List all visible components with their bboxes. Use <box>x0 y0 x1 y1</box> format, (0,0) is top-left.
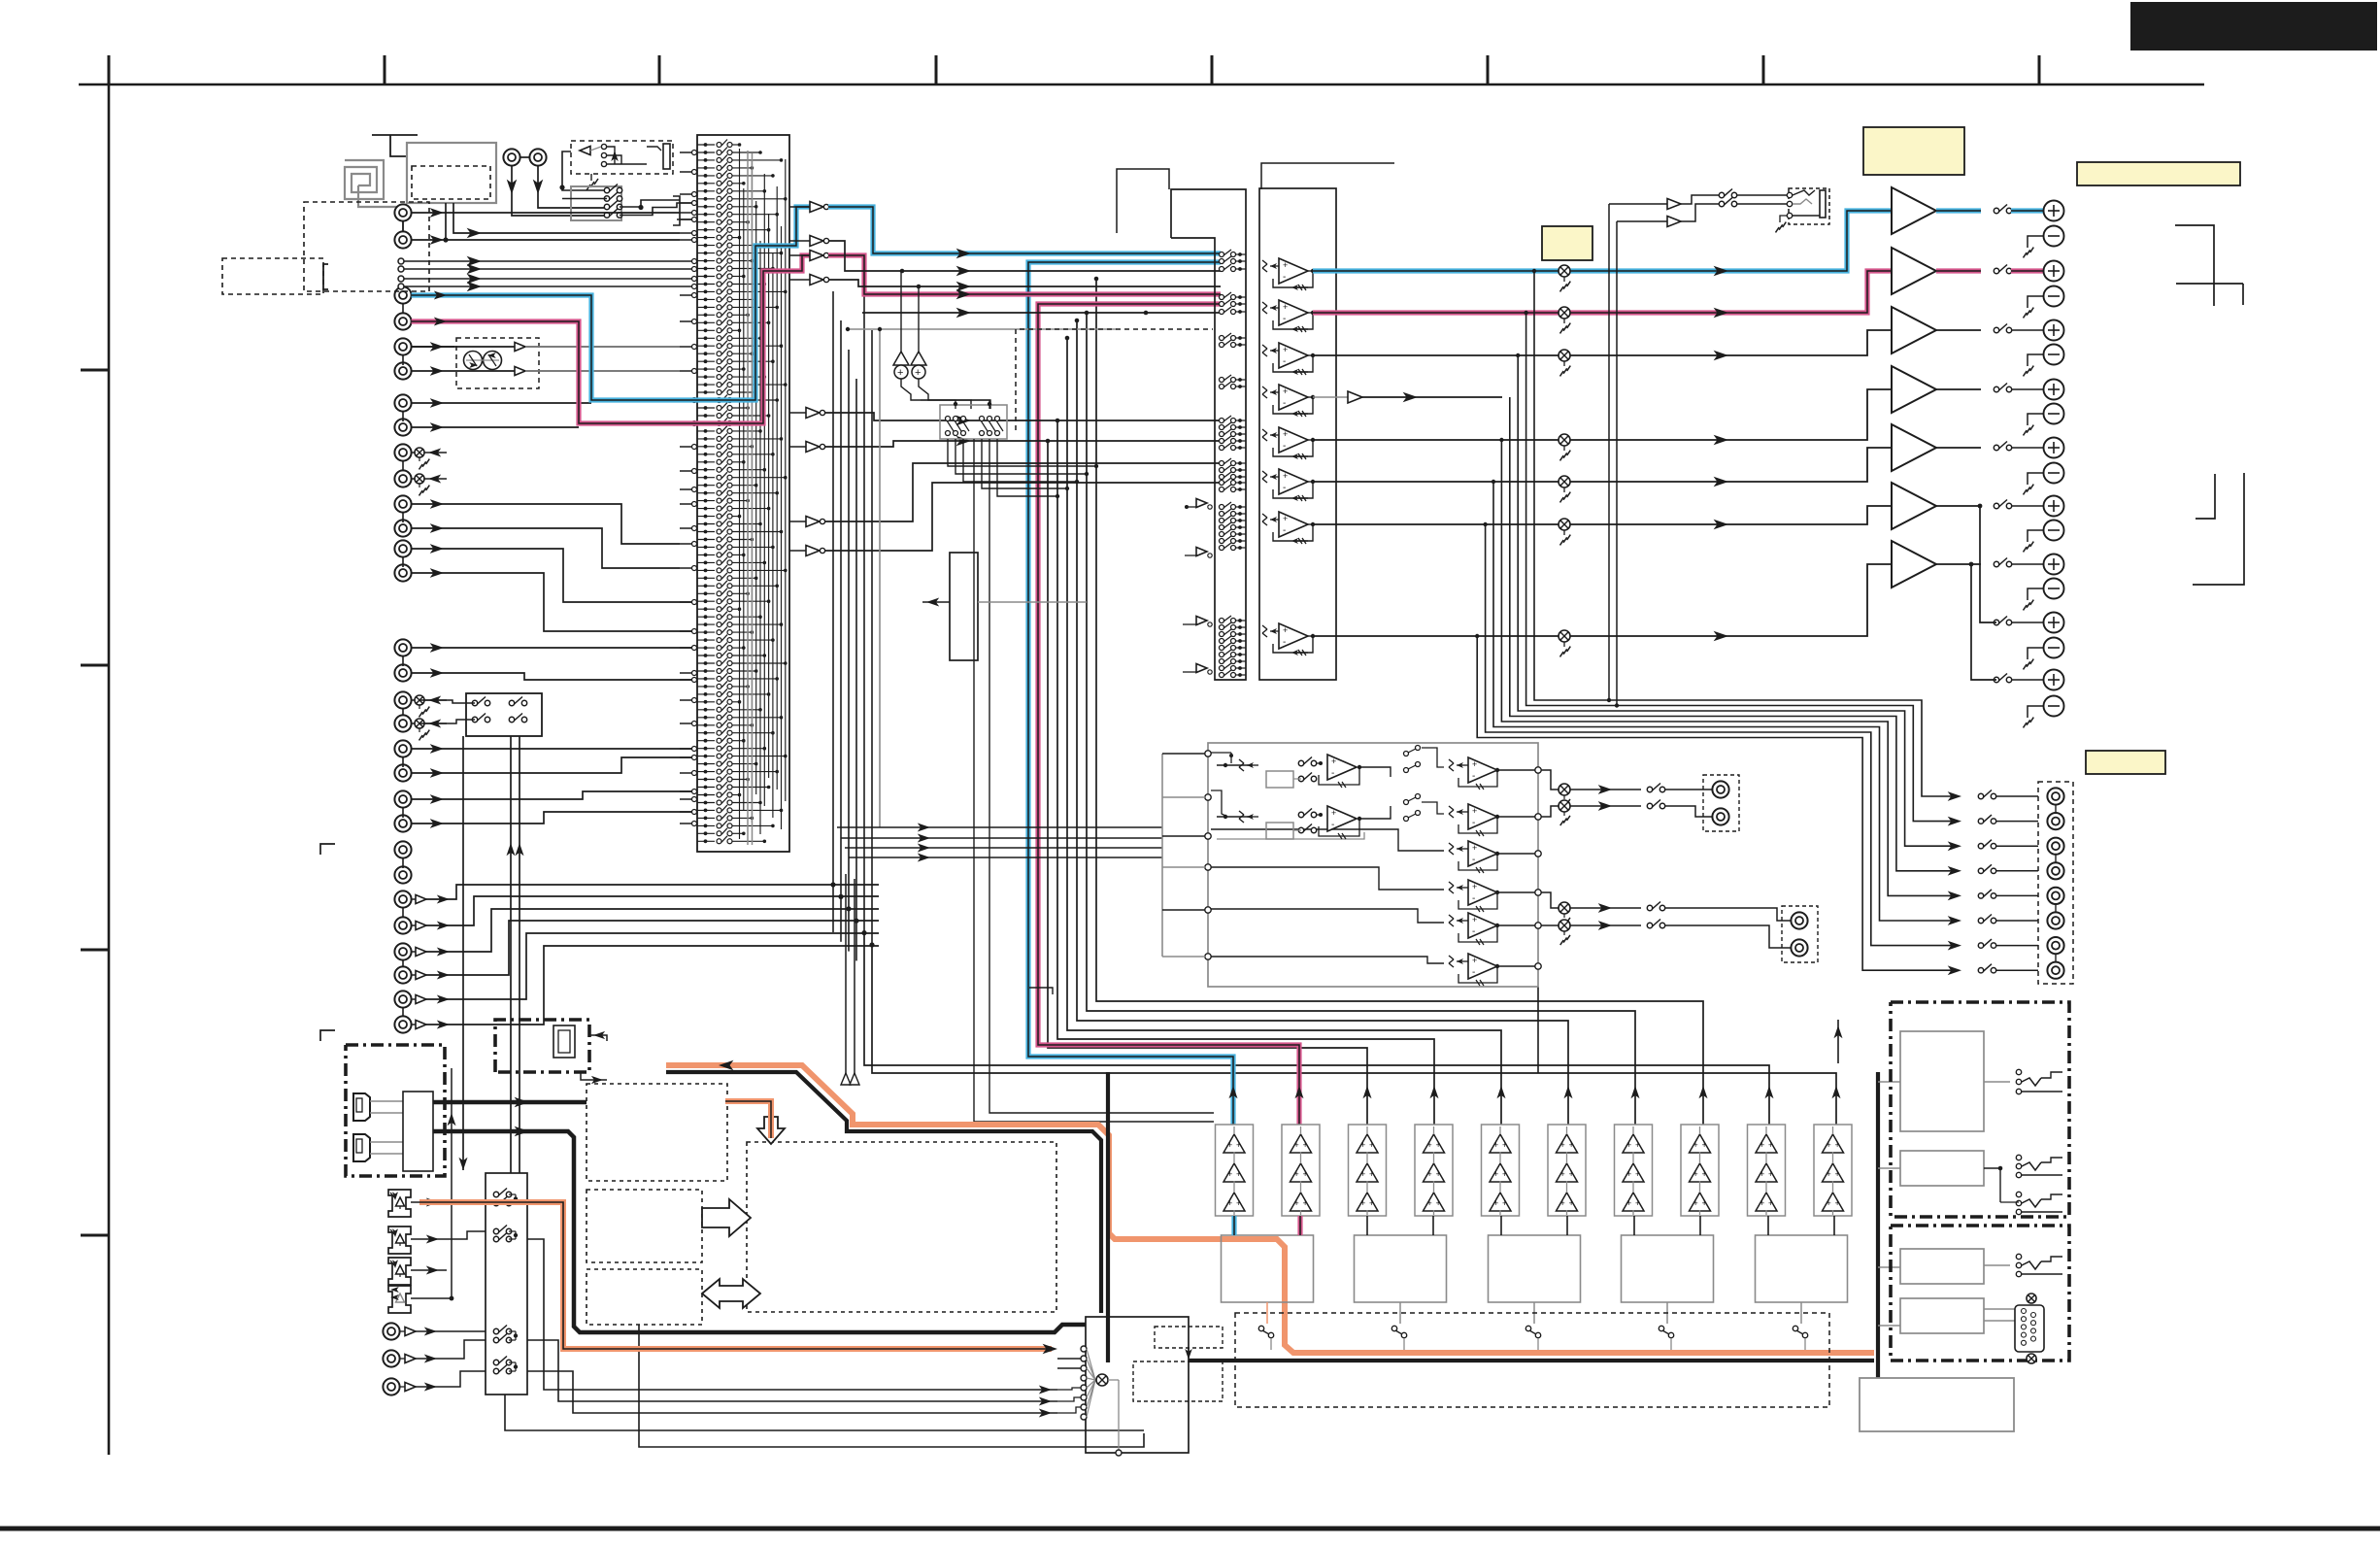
selector2 inv buffer a <box>1196 499 1207 508</box>
pre-out relay ch3 <box>1978 844 1983 849</box>
wire rec vertical 2 <box>519 736 520 1173</box>
svg-text:+: + <box>1472 915 1477 924</box>
mixer fan wire 8 <box>1087 1380 1095 1417</box>
svg-text:+: + <box>1283 386 1288 396</box>
bass internal wire 9 <box>1217 832 1364 839</box>
bus wire row 567 <box>824 483 1221 551</box>
power amp A2 <box>1892 248 1936 294</box>
speaker jumper frame 2 <box>2196 474 2215 519</box>
svg-text:-: - <box>1283 483 1286 493</box>
transformer box 2 <box>1900 1151 1984 1186</box>
big arrow right <box>702 1199 751 1236</box>
speaker terminal plus 4 <box>2044 380 2064 400</box>
page border top rule <box>79 84 2204 86</box>
power amp A1 <box>1892 187 1936 234</box>
bus wire row 322 <box>862 312 1221 314</box>
svg-text:+: + <box>1427 1140 1432 1150</box>
selector2 switch 18 <box>1220 475 1224 480</box>
svg-text:+: + <box>1760 1198 1764 1208</box>
mute relay row 322 <box>1559 307 1570 319</box>
bus wire row 339 gray <box>848 328 1117 330</box>
jack pair link <box>402 304 404 314</box>
selector2 switch 14 <box>1220 439 1224 444</box>
wire jack row 796 <box>412 757 696 773</box>
input jack J13 <box>394 639 411 655</box>
note box C <box>1542 226 1592 260</box>
tone box top wires <box>921 400 955 409</box>
speaker terminal minus 4 <box>2044 404 2064 424</box>
wire video row 1029 <box>426 933 879 999</box>
svg-text:+: + <box>1427 1169 1432 1179</box>
bass sum op-amp U6a <box>1449 759 1454 763</box>
svg-text:+: + <box>1303 1140 1308 1150</box>
svg-text:+: + <box>1303 1198 1308 1208</box>
svg-text:+: + <box>1835 1198 1840 1208</box>
phones drive amp R <box>1667 217 1681 227</box>
pre-out jack ch1 <box>2047 788 2063 804</box>
input jack J18 <box>394 815 411 831</box>
DAC5 riser arrow <box>1837 1020 1839 1063</box>
mixer fan wire 7 <box>1087 1380 1095 1407</box>
bass filter op-amp U5b <box>1224 815 1227 819</box>
bass output node 2 <box>1535 814 1541 820</box>
top tick 1 <box>108 55 111 84</box>
DAC mute switch 1 <box>1258 1326 1263 1330</box>
svg-text:+: + <box>1369 1198 1374 1208</box>
input jack J9 <box>394 495 411 512</box>
bass input node 5 <box>1205 907 1211 913</box>
selector2 switch 16 <box>1220 461 1224 466</box>
tone switch drop 3 <box>963 439 1077 482</box>
AM antenna jack <box>529 149 546 165</box>
wire relay out 8 <box>2011 622 2044 623</box>
DAC buffer group box 7 <box>1615 1125 1653 1216</box>
tone switch drop 1 <box>948 439 1096 466</box>
selector2 switch 7 <box>1220 336 1224 341</box>
bass input node 2 <box>1205 794 1211 800</box>
matrix buffer U1d <box>789 279 810 281</box>
selector2 switch 2 <box>1220 259 1224 264</box>
wire encoder left arrow <box>922 601 950 603</box>
svg-text:+: + <box>1369 1169 1374 1179</box>
tone switch drop 4 <box>982 439 1067 488</box>
bass sum op-amp U6b <box>1449 806 1454 810</box>
multi channel input pin 2 <box>398 266 404 272</box>
DAC out stub 2 <box>1399 1302 1401 1324</box>
sub jack dashed box 1 <box>1703 775 1739 831</box>
video bus drop 1 <box>832 885 834 932</box>
svg-text:+: + <box>897 367 903 379</box>
speaker relay switch 3 <box>604 204 609 209</box>
DAC buffer group box 9 <box>1748 1125 1786 1216</box>
DAC buffer triple 10 <box>1823 1134 1844 1153</box>
input jack J11 <box>394 540 411 556</box>
signal wire row 655 <box>1313 564 1892 636</box>
speaker relay 6 <box>1994 503 1998 508</box>
mute relay row 366 <box>1559 350 1570 361</box>
selector2 switch 29 <box>1220 625 1224 630</box>
svg-text:+: + <box>1472 806 1477 816</box>
tone switch 4 <box>980 417 985 421</box>
svg-text:+: + <box>1472 882 1477 891</box>
bus wire matrix to DAC 6 <box>1048 441 1367 1125</box>
video bus drop 6 <box>871 330 873 946</box>
selector2 inv buffer b <box>1196 548 1207 556</box>
input dashed group box 2 <box>222 258 323 294</box>
jack pair link <box>402 908 404 918</box>
wire dig out 4 <box>527 1371 1057 1413</box>
svg-text:+: + <box>1360 1140 1365 1150</box>
pink wire buffer <box>828 255 1221 294</box>
surround back branch 2 <box>1971 564 1996 680</box>
svg-text:+: + <box>1768 1198 1773 1208</box>
coax digital jack D2 <box>383 1350 399 1366</box>
tone switch box <box>940 405 1007 439</box>
wire to DSP row 873 <box>845 847 1162 849</box>
line op-amp U3d <box>1262 386 1267 390</box>
selector2 switch 10 <box>1220 385 1224 389</box>
multi channel input pin 3 <box>398 276 404 282</box>
svg-text:+: + <box>1502 1198 1507 1208</box>
pre-out jack ch6 <box>2047 912 2063 928</box>
matrix buffer U1b <box>789 240 810 242</box>
rs232 wires <box>1984 1308 2017 1310</box>
pre-out relay ch7 <box>1978 943 1983 948</box>
tone switch 3 <box>961 417 966 421</box>
wire dig bottom 2 <box>639 1325 1144 1447</box>
svg-text:-: - <box>1283 441 1286 452</box>
selector2 switch 31 <box>1220 639 1224 644</box>
wire phones feed L <box>1608 204 1610 700</box>
rec switch 2b <box>509 717 514 722</box>
record out isolator <box>412 723 415 724</box>
subwoofer jack 2 <box>1712 808 1728 824</box>
pre-out wire ch2 <box>1526 313 1955 822</box>
loop antenna <box>345 160 384 199</box>
jack pair link <box>402 412 404 421</box>
wire video row 1055 <box>426 946 879 1025</box>
digital selector box <box>486 1173 527 1395</box>
svg-text:+: + <box>1294 1169 1299 1179</box>
wire dig in 2 <box>447 1231 486 1239</box>
wire mix in 2 <box>1057 1358 1081 1360</box>
optical input O2 <box>388 1227 411 1254</box>
network module box <box>495 1020 589 1072</box>
input bracket mark <box>323 264 328 289</box>
DAC buffer group box 6 <box>1548 1125 1586 1216</box>
svg-text:+: + <box>1560 1169 1565 1179</box>
svg-text:+: + <box>1236 1140 1241 1150</box>
top tick 5 <box>1211 55 1214 84</box>
pre-out jack ch2 <box>2047 813 2063 829</box>
video bus drop 4 <box>855 921 857 960</box>
svg-text:+: + <box>1569 1198 1574 1208</box>
selector2 inv buffer d <box>1196 664 1207 673</box>
selector2 switch 19 <box>1220 481 1224 486</box>
blue wire CD-L input <box>412 207 810 400</box>
bundle extra line <box>1029 988 1053 994</box>
video input jack V1 <box>394 891 411 907</box>
jack pair link <box>402 1008 404 1017</box>
jack pair link <box>402 709 404 715</box>
page border left rule <box>108 84 111 1455</box>
DAC in wire L1 <box>1231 1216 1236 1235</box>
input jack J1 <box>394 204 411 220</box>
thick wire hdmi video <box>433 1100 587 1105</box>
input jack J17 <box>394 790 411 807</box>
selector2 top frame <box>1117 169 1169 233</box>
digital switch node 3 <box>514 1333 518 1337</box>
phones jack dashed box <box>1789 188 1829 224</box>
sub jack dashed box 2 <box>1782 906 1818 962</box>
svg-text:+: + <box>1768 1140 1773 1150</box>
bass input node 4 <box>1205 864 1211 870</box>
video bus drop 2 <box>840 896 842 941</box>
selector2 switch 17 <box>1220 468 1224 473</box>
signal wire row 540 <box>1313 506 1892 524</box>
sub out relay 1 <box>1647 787 1652 791</box>
hdmi jack 2 <box>353 1134 370 1161</box>
svg-text:+: + <box>1493 1140 1498 1150</box>
wire relay out 7 <box>2011 563 2044 565</box>
selector2 switch 8 <box>1220 343 1224 348</box>
mute relay row 453 <box>1559 434 1570 446</box>
wire amp out 2 <box>1936 268 1981 273</box>
sub out wire 4 <box>1541 924 1559 926</box>
wire encoder right <box>978 601 1087 603</box>
matrix buffer U1c <box>789 254 810 256</box>
svg-text:+: + <box>1331 756 1336 766</box>
bus wire matrix to DAC 3 <box>1077 320 1568 1125</box>
sub jack wire 1 <box>1664 789 1712 790</box>
matrix buffer U23 <box>789 550 806 552</box>
page bottom rule <box>0 1527 2380 1531</box>
control IF box <box>1900 1298 1984 1333</box>
speaker jumper frame 3 <box>2193 473 2244 585</box>
tape buffer L <box>515 343 525 352</box>
bass input node 6 <box>1205 954 1211 959</box>
sub jack wire 2 <box>1664 806 1712 817</box>
input jack J16 <box>394 764 411 781</box>
svg-text:+: + <box>1827 1140 1831 1150</box>
svg-text:-: - <box>1283 637 1286 648</box>
signal wire row 453 <box>1313 389 1892 440</box>
DAC buffer triple 8 <box>1690 1134 1711 1153</box>
selector2 switch 30 <box>1220 632 1224 637</box>
digital switch 2b <box>493 1236 498 1241</box>
wire amp out 1 <box>1936 208 1981 213</box>
DAC buffer triple 5 <box>1490 1134 1511 1153</box>
RS232 D-sub connector <box>2015 1305 2044 1352</box>
speaker relay switch 2 <box>604 196 609 201</box>
sub out mute 2 <box>1559 800 1570 812</box>
svg-text:+: + <box>1827 1198 1831 1208</box>
record out jack J21 <box>394 444 411 460</box>
tuner block <box>407 143 496 203</box>
svg-text:+: + <box>1702 1169 1707 1179</box>
video DSP box <box>587 1084 727 1181</box>
wire dig in 3 <box>442 1330 486 1332</box>
svg-text:-: - <box>1472 926 1475 937</box>
speaker relay switch 4 <box>604 213 609 218</box>
phones relay 2 <box>1719 201 1724 206</box>
sub out relay 2 <box>1647 803 1652 808</box>
selector2 inv buffer c <box>1196 617 1207 625</box>
coax digital jack D3 <box>383 1378 399 1395</box>
svg-text:+: + <box>1236 1198 1241 1208</box>
signal wire row 366 <box>1313 330 1892 355</box>
bass box edge extension <box>1537 987 1539 1073</box>
svg-text:+: + <box>1635 1169 1640 1179</box>
wire video row 926 <box>426 885 879 899</box>
svg-text:+: + <box>1283 260 1288 270</box>
selector2 switch 34 <box>1220 659 1224 664</box>
title block bar <box>2130 2 2377 50</box>
mute relay row 540 <box>1559 519 1570 530</box>
phones buffer amp <box>580 147 590 155</box>
hdmi jack 1 <box>353 1093 370 1121</box>
wire FM antenna down <box>512 166 605 216</box>
svg-text:+: + <box>1294 1140 1299 1150</box>
wire jack row 848 <box>412 812 696 823</box>
bass internal wire 3 <box>1211 829 1444 851</box>
pink wire CD-R input <box>412 255 810 423</box>
opamp bank box <box>1259 188 1336 680</box>
matrix buffer U21 <box>789 446 806 448</box>
orange wire HDMI arrow <box>719 1060 733 1071</box>
wire to DSP row 883 <box>849 857 1162 858</box>
DAC mute switch 3 <box>1525 1326 1530 1330</box>
selector2 switch 23 <box>1220 519 1224 523</box>
bass sum op-amp U6c <box>1449 843 1454 847</box>
svg-text:-: - <box>1283 356 1286 367</box>
DAC buffer group box 3 <box>1349 1125 1387 1216</box>
pre-out dashed box <box>2038 782 2073 984</box>
svg-text:+: + <box>1360 1169 1365 1179</box>
mixer fan wire 4 <box>1087 1378 1095 1380</box>
mixer input node 1 <box>1081 1346 1087 1352</box>
DAC buffer group box 5 <box>1482 1125 1520 1216</box>
wire jack row 667 <box>412 647 696 649</box>
DAC box 1 <box>1222 1235 1314 1302</box>
pre-out relay ch5 <box>1978 893 1983 898</box>
top tick 2 <box>384 55 386 84</box>
bass input node 3 <box>1205 833 1211 839</box>
DAC mute switch 2 <box>1391 1326 1396 1330</box>
power amp A4 <box>1892 366 1936 413</box>
selector2 switch 32 <box>1220 646 1224 651</box>
jack pair link <box>402 221 404 231</box>
input jack J3 <box>394 286 411 303</box>
mixer input node 6 <box>1081 1395 1087 1400</box>
selector2 switch 25 <box>1220 532 1224 537</box>
selector2 switch 11 <box>1220 419 1224 423</box>
thick wire hdmi audio <box>433 1131 1086 1332</box>
sub jack wire 3 <box>1664 908 1791 921</box>
DAC buffer triple 1 <box>1224 1134 1245 1153</box>
wire amp out 7 <box>1936 563 1981 565</box>
line op-amp U3h <box>1262 625 1267 629</box>
mixer input node 8 <box>1081 1414 1087 1420</box>
wire relay out 2 <box>2011 268 2044 273</box>
svg-text:-: - <box>1283 314 1286 324</box>
speaker terminal minus 5 <box>2044 463 2064 484</box>
svg-text:+: + <box>1283 429 1288 439</box>
pre-out relay ch2 <box>1978 819 1983 823</box>
power stub 3 <box>1878 1266 1900 1268</box>
svg-text:-: - <box>1472 967 1475 978</box>
subwoofer jack 4 <box>1791 939 1807 956</box>
speaker relay 1 <box>1994 208 1998 213</box>
svg-text:+: + <box>1283 345 1288 354</box>
note box A <box>1863 127 1964 175</box>
tone switch drop 7 <box>974 439 1214 1122</box>
selector2 switch 15 <box>1220 446 1224 451</box>
input dashed group box 1 <box>304 202 429 291</box>
speaker relay 9 <box>1994 677 1998 682</box>
antenna T symbol <box>372 134 418 136</box>
DAC out stub 1 <box>1266 1302 1268 1324</box>
DAC buffer group box 10 <box>1814 1125 1852 1216</box>
orange wire digital <box>419 1202 1052 1349</box>
wire phones to selector <box>562 151 607 190</box>
standby supply box <box>1900 1249 1984 1284</box>
bus vertical 3 <box>848 350 850 909</box>
DAC out stub 3 <box>1533 1302 1535 1324</box>
line op-amp U3b <box>1262 302 1267 306</box>
DAC in wire R2 <box>1432 1216 1434 1235</box>
DAC in wire R3 <box>1566 1216 1568 1235</box>
input jack J12 <box>394 564 411 581</box>
buffer row 409 wire <box>1362 396 1502 398</box>
video bus junctions <box>830 882 835 887</box>
phones jack symbol <box>647 147 661 151</box>
bass filter link <box>1359 767 1391 777</box>
input jack J14 <box>394 664 411 681</box>
digital switch 4b <box>493 1368 498 1373</box>
phones out wires <box>1681 195 1720 204</box>
line op-amp U3a <box>1262 260 1267 264</box>
video encoder block <box>950 553 978 660</box>
video bus drop 3 <box>848 909 850 952</box>
DAC in wire R1 <box>1297 1216 1302 1235</box>
wire AM antenna down <box>538 166 605 208</box>
bass internal wire 6 <box>1211 957 1444 963</box>
wire relay out 1 <box>2011 208 2044 213</box>
note box D <box>2086 751 2165 774</box>
mute relay row 655 <box>1559 630 1570 642</box>
matrix buffer U1a <box>789 206 810 208</box>
record out jack J22 <box>394 470 411 487</box>
DAC switch dashed box <box>1235 1313 1829 1407</box>
transformer box 1 <box>1900 1031 1984 1131</box>
mixer out node <box>1116 1450 1122 1456</box>
wire dig out 3 <box>527 1340 1057 1401</box>
rec switch 2a <box>509 700 514 705</box>
phones contacts <box>601 144 606 149</box>
svg-text:+: + <box>1436 1198 1441 1208</box>
top tick 4 <box>935 55 938 84</box>
svg-text:-: - <box>1472 771 1475 782</box>
svg-text:+: + <box>1835 1140 1840 1150</box>
bus wire matrix to DAC 5 <box>1057 420 1434 1125</box>
video input jack V2 <box>394 917 411 933</box>
speaker terminal plus 3 <box>2044 320 2064 341</box>
pre-out jack ch5 <box>2047 888 2063 904</box>
record out jack J24 <box>394 715 411 731</box>
bus wire matrix to DAC 4 <box>1067 338 1501 1125</box>
speaker terminal minus 3 <box>2044 345 2064 365</box>
